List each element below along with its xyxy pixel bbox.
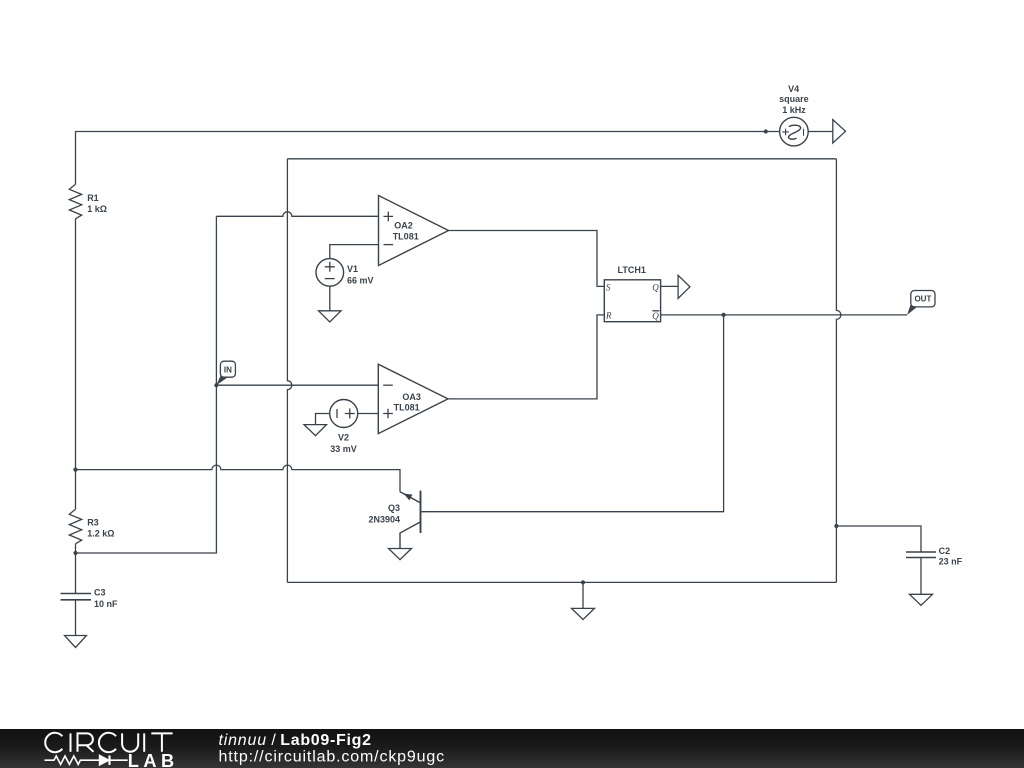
node junction dot left/emitter wire (73, 468, 77, 472)
svg-text:IN: IN (224, 366, 232, 375)
logo CIRCUIT lettering (45, 733, 172, 752)
svg-text:TL081: TL081 (393, 232, 419, 242)
svg-text:Q: Q (652, 283, 659, 293)
node junction dot near V4 (764, 129, 768, 133)
svg-text:V4: V4 (788, 84, 799, 94)
svg-text:R3: R3 (87, 517, 99, 527)
flag output arrow at V4 (833, 120, 846, 143)
svg-text:http://circuitlab.com/ckp9ugc: http://circuitlab.com/ckp9ugc (219, 749, 446, 766)
capacitor C2 (906, 546, 963, 567)
outer loop right edge with hop over OUT wire (836, 159, 841, 583)
outer loop top edge (287, 158, 836, 160)
svg-text:Q: Q (652, 311, 659, 321)
flag output arrow at Q (678, 275, 690, 298)
svg-text:S: S (606, 282, 611, 292)
ground left of V2 (304, 425, 327, 436)
ground below C2 (910, 594, 933, 605)
wire latch Q to flag (661, 285, 679, 287)
wire right edge to C2 (836, 526, 921, 552)
svg-text:C3: C3 (94, 588, 106, 598)
wire OA2 output to latch S (449, 231, 605, 287)
footer bar (0, 729, 1024, 768)
wire C3 to ground (75, 600, 77, 636)
svg-text:LAB: LAB (128, 751, 179, 768)
svg-text:66 mV: 66 mV (347, 275, 374, 285)
resistor R1 (69, 184, 107, 219)
resistor R3 (69, 509, 114, 544)
logo resistor-diode squiggle (45, 756, 128, 765)
svg-text:C2: C2 (939, 546, 951, 556)
node junction dot bottom ground stub (581, 580, 585, 584)
node junction dot R3 bottom (73, 551, 77, 555)
wire mid vertical to R3 bottom (76, 216, 217, 553)
svg-text:V2: V2 (338, 432, 349, 442)
svg-text:23 nF: 23 nF (939, 557, 963, 567)
ground below C3 (65, 636, 87, 648)
op-amp OA2 (379, 196, 449, 266)
svg-text:tinnuu / Lab09-Fig2: tinnuu / Lab09-Fig2 (219, 732, 372, 749)
wire latch Qbar to OUT (661, 314, 908, 316)
svg-text:OA2: OA2 (394, 220, 413, 230)
wire C2 to ground (920, 558, 922, 595)
wire left vertical R1 to R3 (75, 219, 77, 510)
capacitor C3 (61, 588, 119, 610)
outer loop left edge with hop over IN wire (287, 159, 292, 583)
wire top net from R1 to V4 (76, 132, 780, 185)
voltage source V4 square 1 kHz (779, 84, 809, 146)
svg-text:1.2 kΩ: 1.2 kΩ (87, 529, 114, 539)
outer loop bottom edge (287, 581, 836, 583)
svg-text:square: square (779, 94, 809, 104)
svg-text:OUT: OUT (914, 295, 931, 304)
flag IN (216, 361, 235, 385)
ground below V1 (319, 311, 342, 322)
node junction dot C2 branch (834, 524, 838, 528)
svg-text:TL081: TL081 (394, 402, 420, 412)
ground below Q3 (389, 549, 412, 560)
wire OA3 inverting input (216, 384, 378, 386)
svg-text:V1: V1 (347, 264, 358, 274)
wire OA3 output to latch R (448, 315, 604, 399)
svg-text:1 kHz: 1 kHz (782, 105, 806, 115)
wire OA2 noninverting input with hop (216, 212, 378, 216)
node IN junction dot (214, 383, 218, 387)
svg-text:LTCH1: LTCH1 (618, 265, 646, 275)
svg-text:10 nF: 10 nF (94, 599, 118, 609)
op-amp OA3 (378, 364, 448, 433)
node junction dot Q3 base branch (722, 313, 726, 317)
wire R3 bottom to C3 (75, 544, 77, 594)
ground bottom center (572, 608, 595, 619)
voltage source V1 66 mV (316, 245, 379, 311)
flag OUT (907, 291, 935, 315)
svg-text:R: R (605, 311, 612, 321)
svg-text:1 kΩ: 1 kΩ (87, 204, 107, 214)
wire horizontal R1/R3 node to Q3 emitter with hops (76, 465, 401, 492)
transistor Q3 2N3904 (368, 491, 420, 549)
svg-text:Q3: Q3 (388, 503, 400, 513)
svg-text:OA3: OA3 (402, 392, 421, 402)
voltage source V2 33 mV (316, 400, 379, 454)
wire V4 to output flag (808, 131, 833, 133)
svg-text:33 mV: 33 mV (330, 444, 357, 454)
svg-text:R1: R1 (87, 193, 99, 203)
svg-text:2N3904: 2N3904 (368, 515, 400, 525)
wire ground stub (582, 582, 584, 608)
latch LTCH1 (604, 265, 660, 321)
wire Q3 base route (422, 315, 724, 512)
